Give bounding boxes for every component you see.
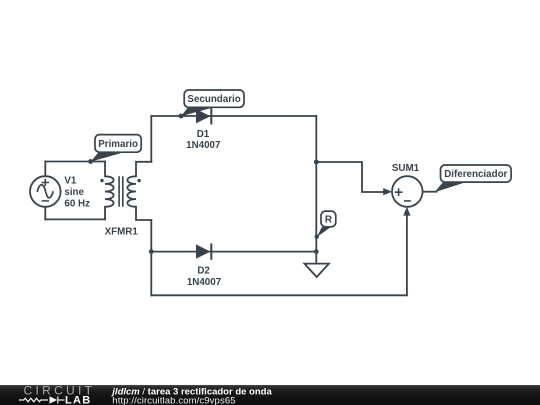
junction dot Primario node: [88, 159, 93, 164]
svg-text:V1: V1: [64, 175, 77, 186]
wire secondary top riser: [150, 116, 152, 162]
voltage source V1: [30, 176, 61, 207]
XFMR1 phase dot secondary: [137, 179, 140, 182]
wire secondary bottom pin: [136, 207, 151, 220]
svg-text:1N4007: 1N4007: [186, 140, 221, 151]
svg-text:SUM1: SUM1: [392, 163, 420, 174]
CircuitLab logo resistor-diode glyph: [19, 397, 65, 404]
wire V1 bottom stub: [44, 207, 46, 220]
svg-text:Secundario: Secundario: [187, 94, 240, 105]
node Diferenciador flag: [435, 165, 512, 192]
ground: [304, 264, 329, 277]
wire to SUM1 minus input: [406, 213, 408, 295]
wire mid vertical to ground net: [315, 162, 317, 252]
svg-text:sine: sine: [64, 187, 84, 198]
svg-text:http://circuitlab.com/c9vps65: http://circuitlab.com/c9vps65: [112, 395, 235, 405]
wire D1 rail: [151, 115, 316, 117]
junction dot R flag attach: [315, 235, 319, 239]
wire D1 rail drop: [315, 116, 317, 162]
junction dot ground net: [314, 249, 319, 254]
SUM1 minus input arrowhead: [403, 207, 410, 216]
node R flag: [317, 211, 336, 237]
svg-text:Primario: Primario: [98, 139, 138, 150]
svg-text:Diferenciador: Diferenciador: [444, 169, 507, 180]
V1 value labels: [64, 175, 90, 209]
footer bar: [0, 385, 540, 405]
wire to SUM1 plus input: [316, 162, 384, 192]
wire D2 rail: [151, 251, 316, 253]
summer SUM1: [392, 176, 423, 207]
svg-text:1N4007: 1N4007: [187, 277, 222, 288]
svg-text:R: R: [325, 215, 332, 226]
diode D2: [196, 243, 211, 259]
svg-text:D2: D2: [197, 266, 210, 277]
XFMR1 phase dot primary: [100, 179, 103, 182]
node Secundario flag: [181, 90, 244, 116]
svg-text:XFMR1: XFMR1: [105, 227, 139, 238]
wire ground stub: [315, 252, 317, 264]
wire bottom rail: [151, 294, 407, 296]
svg-text:60 Hz: 60 Hz: [64, 198, 90, 209]
wire primary bottom rail: [45, 218, 105, 220]
svg-text:LAB: LAB: [65, 395, 92, 405]
diode D1: [196, 108, 211, 124]
wire SUM1 output: [423, 191, 437, 193]
wire V1 top stub: [44, 162, 46, 177]
junction dot D2 anode net: [149, 249, 154, 254]
wire secondary bottom riser: [150, 220, 152, 295]
node Primario flag: [91, 135, 142, 162]
svg-text:D1: D1: [197, 129, 210, 140]
wire primary top rail: [45, 161, 105, 163]
junction dot SUM plus net: [314, 160, 319, 165]
junction dot Secundario node: [179, 114, 184, 119]
wire secondary top pin: [136, 162, 151, 177]
SUM1 plus input arrowhead: [383, 188, 392, 195]
wire primary bottom pin: [104, 207, 106, 220]
wire primary top pin: [104, 162, 106, 177]
transformer XFMR1: [105, 176, 136, 207]
